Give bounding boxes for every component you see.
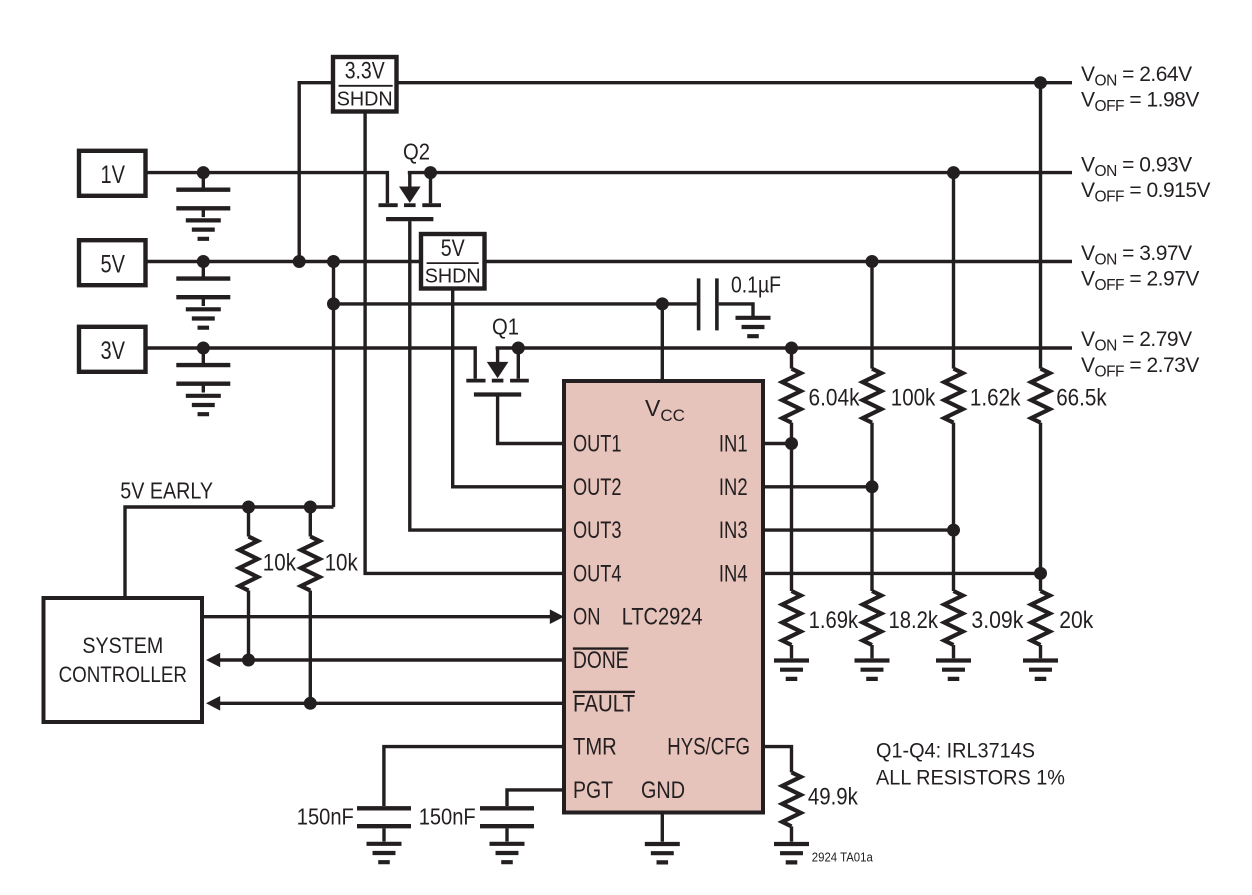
ground	[186, 220, 221, 238]
ground (150nF PGT)	[490, 844, 525, 862]
resistor R 10k first	[239, 537, 258, 591]
wire 3V rail from box to Q1 source	[146, 348, 476, 379]
wire 5V rail to VCC node	[332, 262, 335, 508]
wire VCC node to bypass capacitor	[334, 302, 697, 305]
wire 1V rail to R 1.62k	[952, 173, 955, 369]
5V box divider line	[427, 262, 479, 264]
capacitor 150nF (PGT) plates	[480, 808, 534, 826]
svg-text:VOFF = 0.915V: VOFF = 0.915V	[1081, 179, 1210, 206]
svg-text:VON = 0.93V: VON = 0.93V	[1081, 153, 1192, 180]
resistor 1.69k	[782, 591, 801, 645]
svg-text:DONE: DONE	[573, 647, 629, 674]
transistor Q1 body arrow	[487, 362, 509, 378]
wire 0.1uF to ground	[719, 304, 753, 316]
resistor R 10k second	[301, 537, 320, 591]
junction 5V rail / VCC branch	[327, 255, 340, 268]
ground	[186, 309, 221, 327]
svg-text:10k: 10k	[263, 550, 297, 577]
svg-text:Q2: Q2	[403, 139, 430, 165]
svg-text:5V: 5V	[441, 235, 465, 262]
svg-text:0.1µF: 0.1µF	[731, 272, 781, 298]
junction 5V rail / battery	[197, 255, 210, 268]
voltage source box 1V	[79, 151, 146, 196]
svg-text:Q1-Q4: IRL3714S: Q1-Q4: IRL3714S	[876, 739, 1035, 763]
junction VCC / 0.1uF capacitor	[656, 297, 669, 310]
wire 1V rail Q2 drain to VON=0.93V	[408, 171, 1072, 174]
wire IN2 node down to R 18.2k	[870, 487, 873, 591]
arrowhead ON	[550, 609, 564, 624]
wire PGT to capacitor	[507, 790, 564, 806]
wire FAULT from chip to controller	[219, 702, 564, 705]
junction 1V rail / 1.62k	[947, 166, 960, 179]
svg-text:SHDN: SHDN	[425, 266, 481, 288]
battery lower stub	[202, 210, 205, 218]
svg-text:3.09k: 3.09k	[971, 607, 1024, 634]
svg-text:10k: 10k	[325, 550, 359, 577]
battery plate bottom	[176, 382, 230, 386]
svg-text:5V: 5V	[101, 251, 126, 279]
transistor Q1 drain lead	[517, 348, 520, 379]
transistor Q2 body arrow stem	[408, 173, 411, 188]
wire 5V EARLY to R 10k second	[309, 507, 312, 537]
resistor 6.04k	[782, 369, 801, 423]
svg-text:OUT4: OUT4	[573, 560, 622, 587]
resistor 49.9k	[782, 772, 801, 826]
wire IN1 node down to R 1.69k	[790, 444, 793, 592]
wire 3V rail Q1 drain to VON=2.79V	[496, 346, 1072, 349]
wire 6.04k to IN1	[790, 423, 793, 444]
transistor Q1 drain pad	[510, 379, 529, 383]
junction VCC branch	[327, 297, 340, 310]
battery lower stub	[202, 299, 205, 307]
svg-text:5V EARLY: 5V EARLY	[120, 478, 213, 504]
svg-text:SYSTEM: SYSTEM	[82, 633, 163, 658]
regulator box 3.3V/SHDN	[333, 57, 397, 112]
capacitor C1 0.1uF plates	[699, 278, 717, 330]
3.3V box divider line	[339, 85, 393, 87]
junction IN1	[785, 437, 798, 450]
wire 1.69k to ground	[790, 645, 793, 658]
wire 3.3V regulator left lead down to 5V rail	[299, 83, 333, 262]
regulator box 5V/SHDN	[421, 234, 485, 289]
voltage source box 5V	[79, 240, 146, 285]
wire IN4 pin	[763, 572, 1041, 575]
battery plate top	[176, 276, 230, 280]
wire TMR to capacitor	[384, 747, 564, 806]
svg-text:3V: 3V	[101, 337, 126, 365]
overline DONE	[573, 647, 629, 649]
wire 100k to IN2	[870, 423, 873, 487]
ground (20k)	[1023, 661, 1058, 679]
svg-text:VON = 3.97V: VON = 3.97V	[1081, 242, 1192, 269]
controller box SYSTEM CONTROLLER	[44, 598, 203, 722]
svg-text:1V: 1V	[101, 161, 126, 189]
svg-text:3.3V: 3.3V	[345, 58, 385, 85]
wire 10k second to FAULT line	[309, 591, 312, 704]
resistor 20k	[1031, 591, 1050, 645]
ground (1.69k)	[774, 661, 809, 679]
wire Q2 gate to OUT3	[410, 221, 564, 530]
transistor Q1 drain junction	[512, 342, 525, 355]
junction 10k pullup 2 / 5V EARLY	[304, 501, 317, 514]
wire 10k first to DONE line	[247, 591, 250, 661]
svg-text:66.5k: 66.5k	[1056, 385, 1107, 412]
junction 5V rail / 100k	[866, 255, 879, 268]
svg-text:CONTROLLER: CONTROLLER	[59, 662, 187, 687]
svg-text:GND: GND	[641, 777, 685, 804]
junction 10k pullup 1 / 5V EARLY	[242, 501, 255, 514]
svg-text:VON = 2.79V: VON = 2.79V	[1081, 328, 1192, 355]
svg-text:ON: ON	[573, 604, 601, 631]
svg-text:FAULT: FAULT	[573, 690, 635, 717]
transistor Q1 body pad	[492, 379, 504, 383]
svg-text:100k: 100k	[891, 385, 936, 412]
wire 66.5k to IN4	[1039, 423, 1042, 574]
wire 3.3V SHDN to OUT4	[365, 112, 564, 574]
svg-text:OUT3: OUT3	[573, 517, 622, 544]
wire 5V EARLY to R 10k first	[247, 507, 250, 537]
svg-text:20k: 20k	[1059, 607, 1094, 634]
arrowhead DONE	[206, 653, 220, 668]
capacitor 150nF (TMR) plates	[357, 808, 411, 826]
resistor 66.5k	[1031, 369, 1050, 423]
wire ON from controller to chip	[204, 615, 551, 618]
svg-text:6.04k: 6.04k	[809, 385, 861, 412]
svg-text:Q1: Q1	[492, 314, 519, 340]
wire IN3 node down to R 3.09k	[952, 530, 955, 591]
wire DONE from chip to controller	[219, 658, 564, 661]
wire GND pin to ground	[661, 813, 664, 842]
wire 3V rail to R 6.04k	[790, 348, 793, 369]
junction 3V rail / 6.04k	[785, 342, 798, 355]
ground (3.09k)	[936, 661, 971, 679]
junction 10k / FAULT	[304, 697, 317, 710]
svg-text:1.62k: 1.62k	[970, 385, 1021, 412]
wire 5V rail from box to 5V regulator	[146, 260, 422, 263]
resistor 1.62k	[944, 369, 963, 423]
transistor Q2 drain pad	[422, 203, 441, 207]
battery stub	[202, 348, 205, 363]
transistor Q2 body arrow	[399, 187, 421, 203]
svg-text:OUT1: OUT1	[573, 431, 622, 458]
junction IN2	[866, 480, 879, 493]
wire 5V SHDN to OUT2	[453, 289, 564, 487]
wire 20k to ground	[1039, 645, 1042, 658]
junction 3V rail / battery	[197, 342, 210, 355]
svg-text:1.69k: 1.69k	[809, 607, 859, 634]
svg-text:VOFF = 1.98V: VOFF = 1.98V	[1081, 89, 1199, 116]
junction IN3	[947, 524, 960, 537]
wire HYS/CFG to R 49.9k	[763, 747, 792, 773]
IC U1 LTC2924 body	[564, 381, 763, 813]
ground (GND pin)	[645, 844, 680, 862]
svg-text:VOFF = 2.97V: VOFF = 2.97V	[1081, 267, 1199, 294]
ground	[186, 396, 221, 414]
svg-text:ALL RESISTORS 1%: ALL RESISTORS 1%	[876, 766, 1065, 790]
wire 18.2k to ground	[870, 645, 873, 658]
svg-text:OUT2: OUT2	[573, 474, 622, 501]
wire 150nF TMR to ground	[382, 828, 385, 841]
transistor Q1 body arrow stem	[496, 348, 499, 363]
transistor Q2 gate bar	[386, 217, 433, 221]
svg-text:HYS/CFG: HYS/CFG	[667, 734, 750, 761]
svg-text:150nF: 150nF	[419, 804, 476, 830]
wire 5V rail to R 100k	[870, 262, 873, 369]
junction 3.3V-lead / 5V rail	[293, 255, 306, 268]
overline FAULT	[573, 691, 635, 693]
wire 1.62k to IN3	[952, 423, 955, 530]
svg-text:IN3: IN3	[719, 517, 748, 544]
junction 3.3V rail / 66.5k	[1034, 76, 1047, 89]
transistor Q2 source pad	[379, 203, 398, 207]
svg-text:49.9k: 49.9k	[808, 784, 859, 811]
wire 3.09k to ground	[952, 645, 955, 658]
wire 49.9k to ground	[790, 826, 793, 841]
wire 150nF PGT to ground	[505, 828, 508, 841]
svg-text:VOFF = 2.73V: VOFF = 2.73V	[1081, 354, 1199, 381]
transistor Q2 body pad	[404, 203, 416, 207]
arrowhead FAULT	[206, 696, 220, 711]
battery plate top	[176, 187, 230, 191]
battery plate bottom	[176, 206, 230, 210]
wire Q1 gate to OUT1	[498, 397, 564, 444]
ground (49.9k)	[774, 844, 809, 862]
transistor Q2 drain junction	[424, 166, 437, 179]
wire IN1 pin	[763, 442, 792, 445]
transistor Q1 source pad	[466, 379, 485, 383]
svg-text:VON = 2.64V: VON = 2.64V	[1081, 63, 1192, 90]
transistor Q2 drain lead	[429, 173, 432, 204]
battery plate top	[176, 363, 230, 367]
wire VCC down to chip	[661, 304, 664, 381]
transistor Q1 gate bar	[474, 392, 521, 396]
wire 1V rail from box to Q2 source	[146, 173, 388, 204]
svg-text:SHDN: SHDN	[337, 88, 393, 110]
battery plate bottom	[176, 295, 230, 299]
ground (150nF TMR)	[367, 844, 402, 862]
svg-text:TMR: TMR	[573, 734, 617, 761]
svg-text:PGT: PGT	[573, 777, 613, 804]
battery stub	[202, 262, 205, 277]
svg-text:150nF: 150nF	[297, 804, 354, 830]
junction 10k / DONE	[242, 654, 255, 667]
junction 1V rail / battery	[197, 166, 210, 179]
wire 5V EARLY net	[125, 507, 334, 598]
voltage source box 3V	[79, 327, 146, 372]
ground (0.1uF)	[736, 318, 771, 336]
ground (18.2k)	[855, 661, 890, 679]
wire IN3 pin	[763, 528, 954, 531]
svg-text:18.2k: 18.2k	[889, 607, 939, 634]
svg-text:2924 TA01a: 2924 TA01a	[812, 851, 873, 865]
wire IN4 node down to R 20k	[1039, 573, 1042, 591]
wire IN2 pin	[763, 485, 872, 488]
svg-text:IN2: IN2	[719, 474, 748, 501]
resistor 100k	[863, 369, 882, 423]
wire 3.3V rail to VON=2.64V	[397, 81, 1073, 84]
battery lower stub	[202, 385, 205, 393]
resistor 18.2k	[863, 591, 882, 645]
battery stub	[202, 173, 205, 188]
wire 5V rail regulator to VON=3.97V	[485, 260, 1073, 263]
svg-text:LTC2924: LTC2924	[622, 604, 703, 631]
svg-text:IN4: IN4	[719, 560, 748, 587]
wire 3.3V rail to R 66.5k	[1039, 83, 1042, 369]
svg-text:IN1: IN1	[719, 431, 748, 458]
junction IN4	[1034, 567, 1047, 580]
resistor 3.09k	[944, 591, 963, 645]
